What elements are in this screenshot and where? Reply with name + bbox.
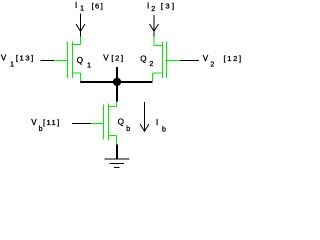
current source I1 arrow stem — [80, 14, 82, 37]
label Vb [11] — [31, 118, 59, 133]
svg-text:Q: Q — [77, 56, 83, 65]
wire Q1 gate lead (green segment) — [54, 60, 68, 62]
svg-text:I: I — [147, 1, 149, 10]
node V junction dot — [113, 78, 121, 86]
current source I2 arrowhead — [150, 24, 159, 31]
svg-text:[3]: [3] — [161, 2, 174, 11]
wire Qb source to ground (black segment) — [116, 145, 118, 159]
transistor Q1 channel bar — [72, 42, 74, 79]
svg-text:V: V — [103, 53, 109, 62]
transistor Q2 channel bar — [162, 42, 164, 79]
label Q2 — [140, 54, 153, 68]
wire V1 terminal (black segment) — [41, 60, 55, 62]
svg-text:V: V — [1, 54, 7, 63]
svg-text:2: 2 — [151, 6, 155, 13]
label I2 [3] — [147, 1, 174, 13]
svg-text:V: V — [31, 118, 37, 127]
svg-text:2: 2 — [210, 62, 214, 69]
svg-text:[2]: [2] — [111, 54, 123, 63]
wire node V horizontal (Q1 source to Q2 source) — [80, 81, 153, 83]
svg-text:b: b — [162, 126, 166, 133]
label V2 [12] — [203, 54, 241, 69]
wire Qb gate lead (green segment) — [91, 123, 104, 125]
svg-text:1: 1 — [10, 61, 14, 68]
wire node V label stub — [116, 67, 118, 79]
svg-text:I: I — [75, 1, 77, 10]
label V [2] — [103, 53, 123, 62]
wire Q1 source stub — [73, 73, 81, 82]
svg-text:2: 2 — [149, 61, 153, 68]
label Qb — [118, 118, 131, 134]
wire Vb terminal (black segment) — [72, 123, 91, 125]
transistor Qb channel bar — [108, 104, 110, 141]
svg-text:[6]: [6] — [92, 1, 103, 10]
ground — [104, 159, 129, 168]
current Ib arrowhead — [140, 124, 149, 131]
label I1 [6] — [75, 1, 103, 12]
wire Qb drain stub — [109, 102, 117, 107]
wire Q2 drain stub — [154, 37, 163, 46]
svg-text:1: 1 — [80, 5, 84, 12]
svg-text:I: I — [156, 118, 158, 127]
current source I2 arrow stem — [153, 15, 155, 37]
svg-text:b: b — [39, 126, 43, 133]
current source I1 arrowhead — [76, 24, 85, 31]
wire Q1 drain stub — [73, 37, 81, 45]
svg-text:Q: Q — [140, 54, 146, 63]
transistor Qb gate bar — [103, 105, 105, 140]
label Q1 — [77, 56, 91, 69]
transistor Q2 gate bar — [166, 42, 168, 79]
wire Q2 gate lead (green segment) — [167, 60, 181, 62]
wire Q2 source stub — [153, 73, 163, 82]
svg-text:V: V — [203, 54, 209, 63]
transistor Q1 gate bar — [67, 42, 69, 79]
wire V2 terminal (black segment) — [180, 60, 199, 62]
svg-text:Q: Q — [118, 118, 124, 127]
svg-text:1: 1 — [87, 62, 91, 69]
wire node V down to Qb drain — [116, 82, 118, 102]
wire Qb source stub — [109, 136, 117, 145]
current Ib arrow stem — [144, 102, 146, 132]
label V1 [13] — [1, 54, 33, 69]
svg-text:b: b — [126, 126, 130, 133]
label Ib — [156, 118, 166, 134]
